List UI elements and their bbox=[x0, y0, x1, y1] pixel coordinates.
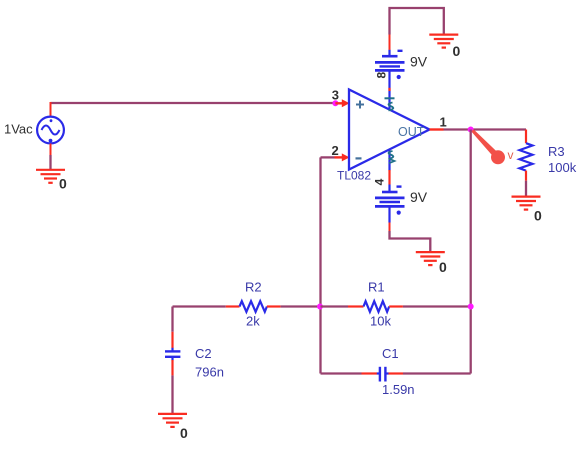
svg-text:3: 3 bbox=[332, 88, 339, 103]
op-amp U1 triangle bbox=[349, 90, 430, 170]
label 1.59n bbox=[382, 382, 415, 397]
label 100k bbox=[548, 160, 577, 175]
probe V bbox=[471, 129, 505, 164]
label C1 bbox=[382, 346, 399, 361]
battery V3 bottom bbox=[375, 187, 405, 223]
svg-text:4: 4 bbox=[373, 178, 387, 185]
ground source bbox=[36, 170, 65, 183]
svg-text:9V: 9V bbox=[410, 54, 428, 70]
pin 3 arrow bbox=[335, 99, 349, 107]
label 10k bbox=[370, 314, 391, 329]
pin 2 arrow bbox=[335, 153, 350, 161]
label pin 1 bbox=[440, 115, 447, 130]
svg-text:0: 0 bbox=[59, 176, 67, 192]
wire V- power pin bbox=[388, 150, 390, 192]
capacitor C2 bbox=[165, 332, 180, 376]
ground battery bottom bbox=[416, 252, 445, 265]
label R1 bbox=[368, 279, 385, 294]
wire C1 row bbox=[321, 372, 471, 374]
label pin 2 bbox=[332, 143, 339, 158]
wire junction to R1 bbox=[321, 305, 349, 307]
svg-text:2: 2 bbox=[332, 143, 339, 158]
svg-text:R1: R1 bbox=[368, 279, 385, 294]
wire R2 to junction bbox=[281, 305, 321, 307]
label pin 3 bbox=[332, 88, 339, 103]
svg-text:8: 8 bbox=[375, 72, 389, 79]
label 0 battery ground bbox=[439, 259, 447, 275]
capacitor C1 bbox=[362, 367, 404, 382]
wire C2 branch top bbox=[171, 307, 173, 332]
label 0 R3 ground bbox=[534, 208, 542, 224]
wire source bottom stub bbox=[50, 144, 52, 171]
svg-text:2k: 2k bbox=[246, 314, 260, 329]
label v probe bbox=[508, 148, 514, 162]
label pin 8 bbox=[375, 72, 389, 79]
svg-text:C1: C1 bbox=[382, 346, 399, 361]
svg-text:TL082: TL082 bbox=[337, 169, 371, 183]
label 0 source ground bbox=[59, 176, 67, 192]
label 796n bbox=[195, 364, 224, 379]
label 9V bottom bbox=[410, 189, 428, 205]
wire output stub bbox=[430, 128, 471, 130]
wire output to R3 bbox=[471, 128, 526, 130]
svg-text:0: 0 bbox=[439, 259, 447, 275]
wire pin2 horizontal bbox=[321, 156, 335, 158]
ground top right bbox=[429, 35, 458, 48]
svg-text:10k: 10k bbox=[370, 314, 391, 329]
svg-text:R2: R2 bbox=[245, 279, 262, 294]
wire V+ power pin bbox=[388, 71, 390, 110]
wire right vertical feedback bbox=[470, 130, 472, 374]
svg-text:100k: 100k bbox=[548, 160, 577, 175]
resistor R3 bbox=[520, 130, 533, 197]
wire C2 to ground bbox=[171, 375, 173, 413]
op-amp minus sign bbox=[356, 157, 362, 159]
node R2 R1 junction bbox=[317, 304, 323, 310]
label pin 4 bbox=[373, 178, 387, 185]
label 0 top right bbox=[453, 43, 461, 59]
ac source V1 bbox=[37, 117, 64, 144]
label OUT bbox=[398, 125, 425, 139]
battery V2 top bbox=[375, 50, 405, 80]
label R2 bbox=[245, 279, 262, 294]
wire left vertical pin2 feedback bbox=[319, 157, 321, 373]
wire battery V3 to ground bbox=[390, 223, 431, 253]
label 2k bbox=[246, 314, 260, 329]
svg-text:v: v bbox=[508, 148, 514, 162]
ground R3 bbox=[512, 197, 541, 210]
svg-text:0: 0 bbox=[534, 208, 542, 224]
svg-text:9V: 9V bbox=[410, 189, 428, 205]
svg-text:R3: R3 bbox=[548, 144, 565, 159]
node R1 right junction bbox=[468, 304, 474, 310]
svg-text:1: 1 bbox=[440, 115, 447, 130]
wire battery V2 to corner bbox=[390, 8, 444, 50]
label 9V top bbox=[410, 54, 428, 70]
svg-text:OUT: OUT bbox=[398, 125, 425, 139]
svg-text:1.59n: 1.59n bbox=[382, 382, 415, 397]
power pin V- mark bbox=[389, 151, 395, 163]
resistor R1 bbox=[348, 301, 403, 312]
label C2 bbox=[195, 346, 212, 361]
node output junction bbox=[468, 127, 474, 133]
svg-text:C2: C2 bbox=[195, 346, 212, 361]
svg-text:0: 0 bbox=[453, 43, 461, 59]
op-amp plus sign bbox=[356, 101, 364, 109]
svg-text:0: 0 bbox=[180, 425, 188, 441]
wire R1 to right junction bbox=[403, 305, 471, 307]
svg-text:796n: 796n bbox=[195, 364, 224, 379]
power pin V+ mark bbox=[385, 98, 395, 110]
label 0 C2 ground bbox=[180, 425, 188, 441]
label R3 bbox=[548, 144, 565, 159]
node pin3 junction bbox=[332, 100, 338, 106]
label 1Vac bbox=[4, 122, 33, 137]
wire R2 row left bbox=[173, 305, 226, 307]
resistor R2 bbox=[226, 301, 281, 312]
label TL082 bbox=[337, 169, 371, 183]
wire input top bbox=[51, 102, 336, 104]
svg-text:1Vac: 1Vac bbox=[4, 122, 33, 137]
ground C2 bbox=[158, 414, 187, 427]
wire source top stub bbox=[50, 102, 52, 117]
